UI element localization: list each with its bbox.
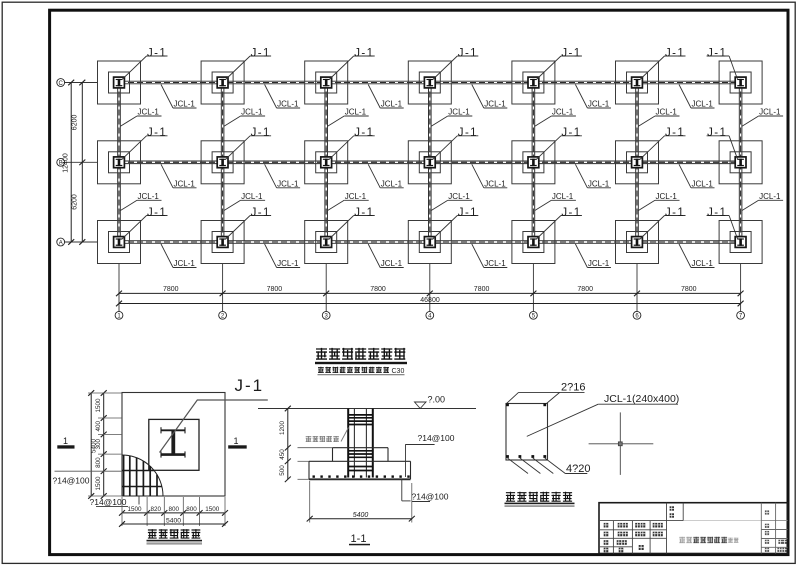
footing J-1 at grid 3A (305, 221, 348, 264)
footing J-1 at grid 5B (512, 141, 555, 184)
grid line column 2 extension to bubble (222, 264, 224, 312)
label J-1 for footing 3C (329, 47, 375, 79)
footing detail left dimension chain (95, 390, 107, 499)
dim text 46800 (420, 297, 440, 304)
label JCL-1 beam row B bay 4 (472, 164, 508, 188)
svg-text:450: 450 (279, 449, 286, 460)
foundation beam JCL-1 horizontal run row C (119, 81, 741, 84)
label JCL-1 beam row C bay 5 (575, 85, 611, 109)
svg-text:5400: 5400 (166, 517, 181, 524)
label J-1 for footing 3B (329, 127, 375, 159)
label JCL-1 vertical beam column 6 below row C (638, 108, 680, 127)
label JCL-1 vertical beam column 7 below row C (742, 108, 784, 127)
label JCL-1 (240x400) with leader (527, 393, 679, 437)
svg-text:7800: 7800 (267, 286, 283, 293)
label J-1 for footing 1A (122, 207, 168, 239)
label JCL-1 vertical beam column 1 below row C (120, 108, 162, 127)
label JCL-1 vertical beam column 3 below row B (327, 192, 369, 211)
label JCL-1 beam row A bay 5 (575, 244, 611, 268)
label concrete bedding (CJK gray) (306, 428, 349, 442)
label J-1 for footing 5A (536, 207, 582, 239)
svg-text:6200: 6200 (71, 194, 78, 210)
grid line column 3 extension to bubble (325, 264, 327, 312)
centerline cross marker (589, 412, 654, 475)
svg-text:1500: 1500 (127, 506, 142, 513)
svg-text:1: 1 (63, 436, 68, 446)
foundation beam JCL-1 vertical run column 4 (429, 83, 432, 243)
grid line row A extension to bubble (64, 241, 97, 243)
label JCL-1 beam row A bay 6 (679, 244, 715, 268)
title block grid lines (599, 503, 788, 554)
label JCL-1 beam row A bay 4 (472, 244, 508, 268)
label J-1 for footing 1B (122, 127, 168, 159)
grid line column 6 extension to bubble (636, 264, 638, 312)
label JCL-1 vertical beam column 2 below row C (224, 108, 266, 127)
svg-text:JCL-1(240x400): JCL-1(240x400) (604, 393, 679, 405)
footing detail bottom dimension chain (119, 506, 228, 516)
label J-1 for footing 7B (707, 127, 738, 159)
label J-1 for footing 6B (640, 127, 686, 159)
grid bubble 3 (322, 311, 330, 319)
label J-1 for footing 1C (122, 47, 168, 79)
label J-1 for footing 7A (707, 207, 738, 239)
svg-text:?14@100: ?14@100 (418, 433, 455, 443)
level symbol 0.00 (415, 395, 446, 409)
footing detail rebar hatch corner with break arc (122, 455, 163, 496)
footing detail left total dimension 5400 (88, 390, 97, 499)
label JCL-1 beam row B bay 3 (368, 164, 404, 188)
dim text 7800 bay 5 (577, 286, 593, 293)
grid bubble C (57, 79, 65, 87)
grid bubble 2 (219, 311, 227, 319)
svg-text:800: 800 (169, 506, 180, 513)
footing J-1 at grid 6C (616, 61, 659, 104)
grid line column 1 extension to bubble (118, 264, 120, 312)
footing J-1 at grid 4C (408, 61, 451, 104)
dim text 6200 upper (71, 115, 78, 131)
footing J-1 at grid 7B (719, 141, 762, 184)
footing J-1 at grid 2B (201, 141, 244, 184)
title 1-1 (349, 533, 370, 545)
footing J-1 at grid 1B (98, 141, 141, 184)
grid bubble B (57, 158, 65, 166)
dim text 7800 bay 3 (370, 286, 386, 293)
label J-1 for footing 5B (536, 127, 582, 159)
svg-text:A: A (59, 240, 63, 246)
foundation beam JCL-1 horizontal run row A (119, 241, 741, 244)
footing J-1 at grid 1C (98, 61, 141, 104)
footing J-1 at grid 3B (305, 141, 348, 184)
svg-text:6200: 6200 (71, 115, 78, 131)
foundation beam JCL-1 vertical run column 1 (118, 83, 121, 243)
section mark 1 left (57, 436, 74, 449)
label JCL-1 beam row C bay 2 (265, 85, 301, 109)
label JCL-1 beam row A bay 3 (368, 244, 404, 268)
label JCL-1 beam row C bay 3 (368, 85, 404, 109)
foundation beam JCL-1 vertical run column 5 (532, 83, 535, 243)
label JCL-1 vertical beam column 2 below row B (224, 192, 266, 211)
label J-1 for footing 2A (226, 207, 272, 239)
label JCL-1 beam row B bay 2 (265, 164, 301, 188)
grid bubble 5 (530, 311, 538, 319)
section 1-1 extension lines (298, 448, 333, 480)
footing J-1 at grid 3C (305, 61, 348, 104)
dim text 7800 bay 4 (474, 286, 490, 293)
title: footing reinforcement detail (CJK) (147, 529, 203, 545)
footing J-1 at grid 4B (408, 141, 451, 184)
grid line column 4 extension to bubble (429, 264, 431, 312)
section 1-1 ground line (258, 408, 476, 410)
svg-text:820: 820 (150, 506, 161, 513)
svg-text:800: 800 (186, 506, 197, 513)
label J-1 for footing 4C (433, 47, 479, 79)
footing J-1 at grid 2A (201, 221, 244, 264)
label JCL-1 beam row B bay 6 (679, 164, 715, 188)
svg-text:1: 1 (233, 436, 238, 446)
subtitle: concrete grade C30 (CJK) (318, 367, 405, 375)
footing detail J-1 outer square (122, 393, 225, 497)
footing J-1 at grid 6B (616, 141, 659, 184)
svg-text:7800: 7800 (163, 286, 179, 293)
footing J-1 at grid 6A (616, 221, 659, 264)
svg-text:?14@100: ?14@100 (412, 492, 449, 502)
footing detail bottom extension lines (122, 497, 225, 526)
label JCL-1 beam row B bay 5 (575, 164, 611, 188)
label J-1 for footing 6C (640, 47, 686, 79)
dim text 6200 lower (71, 194, 78, 210)
label JCL-1 vertical beam column 4 below row C (431, 108, 473, 127)
foundation beam JCL-1 vertical run column 3 (325, 83, 328, 243)
label J-1 for footing 7C (707, 47, 738, 79)
foundation beam JCL-1 vertical run column 6 (636, 83, 639, 243)
title block small texts (604, 506, 787, 552)
svg-text:J-1: J-1 (235, 376, 265, 395)
dim text 7800 bay 2 (267, 286, 283, 293)
label J-1 for footing 5C (536, 47, 582, 79)
svg-text:1-1: 1-1 (351, 533, 367, 545)
grid bubble 6 (633, 311, 641, 319)
label J-1 for footing 4A (433, 207, 479, 239)
foundation beam JCL-1 vertical run column 7 (739, 83, 742, 243)
svg-text:1500: 1500 (95, 476, 102, 491)
svg-text:46800: 46800 (420, 297, 440, 304)
label 2?16 top bars (507, 382, 586, 404)
grid bubble 7 (737, 311, 745, 319)
section 1-1 column with rebar cage (348, 409, 373, 478)
label JCL-1 vertical beam column 4 below row B (431, 192, 473, 211)
footing detail bottom total 5400 (119, 517, 228, 527)
title block drawing name text (679, 537, 738, 543)
svg-text:7800: 7800 (577, 286, 593, 293)
svg-text:7800: 7800 (681, 286, 697, 293)
section mark 1 right (228, 436, 247, 449)
svg-text:5400: 5400 (90, 439, 97, 454)
label JCL-1 beam row C bay 6 (679, 85, 715, 109)
left dimension line 6200 segments (79, 80, 85, 245)
svg-text:4?20: 4?20 (566, 463, 590, 475)
grid bubble A (57, 238, 65, 246)
footing J-1 at grid 7C (719, 61, 762, 104)
footing J-1 at grid 2C (201, 61, 244, 104)
footing J-1 at grid 7A (719, 221, 762, 264)
grid line row C extension to bubble (64, 82, 97, 84)
svg-text:?.00: ?.00 (428, 395, 446, 405)
label JCL-1 vertical beam column 5 below row C (534, 108, 576, 127)
svg-text:12400: 12400 (63, 153, 70, 173)
dim text 7800 bay 1 (163, 286, 179, 293)
footing J-1 at grid 4A (408, 221, 451, 264)
section 1-1 bottom dimension 5400 (307, 481, 415, 523)
svg-text:500: 500 (279, 465, 286, 476)
svg-text:7800: 7800 (370, 286, 386, 293)
footing J-1 at grid 5A (512, 221, 555, 264)
svg-text:1500: 1500 (95, 398, 102, 413)
label JCL-1 beam row A bay 2 (265, 244, 301, 268)
label J-1 for footing 6A (640, 207, 686, 239)
dim text 12400 (63, 153, 70, 173)
svg-text:1200: 1200 (279, 421, 286, 436)
label JCL-1 beam row C bay 4 (472, 85, 508, 109)
label ?14@100 right lower with leader (402, 479, 449, 501)
footing detail extension lines left (55, 393, 123, 496)
svg-text:800: 800 (95, 457, 102, 468)
footing detail label J-1 leader (160, 376, 268, 453)
label JCL-1 vertical beam column 7 below row B (742, 192, 784, 211)
label 4?20 bottom bars (508, 458, 591, 475)
label JCL-1 beam row B bay 1 (161, 164, 197, 188)
foundation beam JCL-1 vertical run column 2 (221, 83, 224, 243)
label ?14@100 bottom with leader (90, 496, 140, 507)
grid bubble 1 (115, 311, 123, 319)
label ?14@100 left (53, 476, 90, 486)
label ?14@100 right upper with leader (405, 433, 454, 477)
dim text 7800 bay 6 (681, 286, 697, 293)
svg-text:?14@100: ?14@100 (90, 497, 127, 507)
beam detail JCL-1 section rectangle (506, 404, 548, 461)
foundation beam JCL-1 horizontal run row B (119, 161, 741, 164)
section 1-1 bottom rebar dots (313, 475, 410, 477)
title: foundation plan layout (CJK) (315, 348, 407, 364)
section 1-1 stepped footing outline (309, 448, 411, 480)
footing J-1 at grid 1A (98, 221, 141, 264)
grid line row B extension to bubble (64, 161, 97, 163)
label JCL-1 vertical beam column 1 below row B (120, 192, 162, 211)
footing detail pier square (149, 419, 199, 470)
footing J-1 at grid 5C (512, 61, 555, 104)
svg-text:5400: 5400 (353, 512, 369, 519)
section 1-1 left dimension chain (279, 406, 291, 482)
title: foundation beam reinforcement detail (CJK) (505, 492, 575, 507)
svg-text:7800: 7800 (474, 286, 490, 293)
left total dimension line 12400 (68, 80, 74, 245)
label JCL-1 vertical beam column 3 below row C (327, 108, 369, 127)
label J-1 for footing 3A (329, 207, 375, 239)
label J-1 for footing 2B (226, 127, 272, 159)
bottom total dimension line 46800 (116, 301, 744, 307)
label JCL-1 vertical beam column 5 below row B (534, 192, 576, 211)
label J-1 for footing 2C (226, 47, 272, 79)
footing detail steel column I-section (161, 427, 186, 457)
grid line column 7 extension to bubble (740, 264, 742, 312)
label JCL-1 beam row A bay 1 (161, 244, 197, 268)
svg-text:1500: 1500 (205, 506, 220, 513)
svg-text:C30: C30 (392, 368, 405, 375)
svg-text:?14@100: ?14@100 (53, 476, 90, 486)
grid line column 5 extension to bubble (532, 264, 534, 312)
label JCL-1 vertical beam column 6 below row B (638, 192, 680, 211)
svg-text:C: C (59, 81, 64, 87)
svg-text:2?16: 2?16 (561, 382, 585, 394)
bottom dimension line 7800 segments (116, 291, 744, 297)
label JCL-1 beam row C bay 1 (161, 85, 197, 109)
svg-text:400: 400 (95, 420, 102, 431)
label J-1 for footing 4B (433, 127, 479, 159)
grid bubble 4 (426, 311, 434, 319)
title block outer box (599, 503, 788, 554)
beam detail rebar dots (506, 403, 546, 458)
